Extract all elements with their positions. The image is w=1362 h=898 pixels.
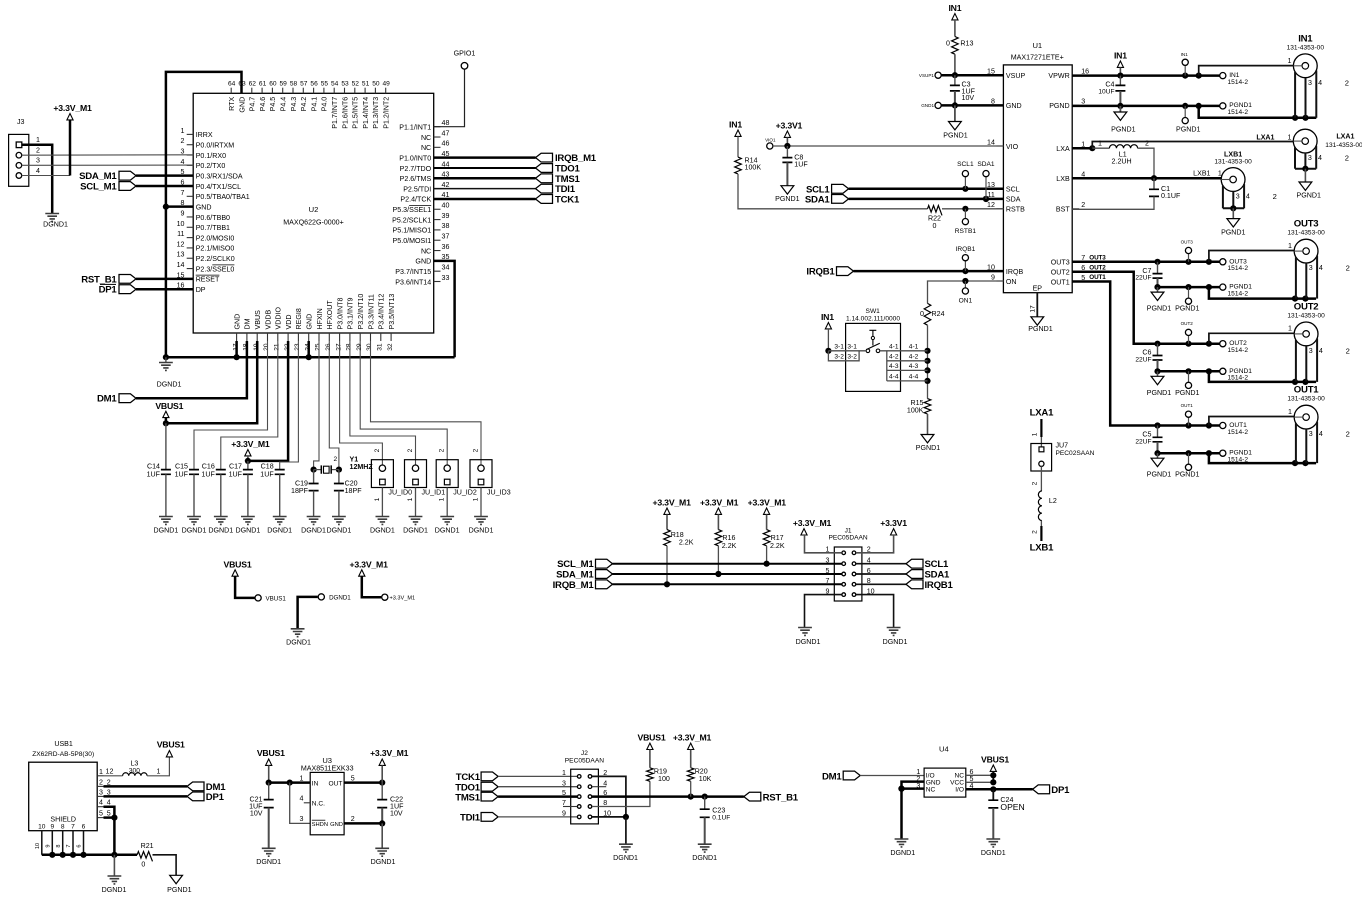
ground PGND1 under LXB1 coax [1232,208,1234,218]
svg-text:DGND1: DGND1 [286,638,311,646]
svg-text:12: 12 [106,767,114,775]
svg-text:1: 1 [562,769,566,777]
ground PGND1 at USB [170,875,183,883]
svg-text:P4.4: P4.4 [280,97,288,112]
capacitor C8 1UF [786,146,788,158]
svg-text:1: 1 [1031,432,1038,436]
wire U4 GND NC tie to ground [902,782,925,789]
svg-text:OUT2: OUT2 [1294,301,1319,312]
resistor R15 100K [924,399,931,414]
svg-text:49: 49 [383,80,391,87]
svg-text:C16: C16 [202,463,215,471]
svg-text:LXA1: LXA1 [1336,133,1354,141]
ground DGND1 under C19 [307,517,321,525]
svg-text:VIO1: VIO1 [765,138,776,143]
test point IRQB1 [964,261,966,271]
svg-text:131-4353-00: 131-4353-00 [1325,142,1362,149]
svg-text:TCK1: TCK1 [555,194,580,205]
svg-text:P1.2/INT2: P1.2/INT2 [383,97,391,129]
svg-text:P4.2: P4.2 [300,97,308,112]
svg-text:P5.3/SSEL1: P5.3/SSEL1 [393,206,432,214]
wire OUT1 bend [1072,282,1157,426]
svg-text:7: 7 [66,844,72,847]
svg-text:4: 4 [300,795,304,803]
svg-text:OUT3: OUT3 [1089,254,1106,261]
wire ON row to R24 [928,281,1004,303]
svg-text:3: 3 [36,157,40,165]
svg-text:IN1: IN1 [821,312,834,322]
svg-text:2: 2 [99,778,103,786]
svg-text:NC: NC [421,144,431,152]
svg-text:PGND1: PGND1 [1175,305,1199,313]
test point OUT1 small [1188,417,1190,425]
ground DGND1 under test point [291,629,305,637]
wire J2 pin8 to R19 [592,781,650,806]
svg-text:VSUP: VSUP [1006,72,1026,80]
svg-text:DGND1: DGND1 [469,527,494,535]
svg-text:10K: 10K [699,775,712,783]
ground PGND1 under LXA1 coax [1304,169,1306,182]
svg-text:LXB: LXB [1056,175,1070,183]
svg-text:1UF: 1UF [260,471,274,479]
svg-text:VSUP1: VSUP1 [919,73,935,78]
svg-text:VIO: VIO [1006,143,1019,151]
capacitor C3 1UF 10V [954,75,956,85]
svg-text:PGND1: PGND1 [916,444,940,452]
wire R24 to switch column [927,325,929,398]
svg-text:2: 2 [334,456,338,463]
svg-text:P3.7/INT15: P3.7/INT15 [395,268,431,276]
svg-text:LXB1: LXB1 [1193,169,1210,177]
svg-text:13: 13 [177,251,185,259]
svg-text:12MHZ: 12MHZ [350,463,374,471]
svg-text:10UF: 10UF [1098,88,1114,95]
svg-text:HFXIN: HFXIN [316,308,324,329]
svg-text:JU_ID1: JU_ID1 [422,489,446,497]
svg-text:4-2: 4-2 [889,354,899,361]
net flag IRQB1 at J1 pin8 [856,583,906,585]
svg-text:131-4353-00: 131-4353-00 [1287,45,1325,52]
ground DGND1 under C17 [241,517,255,525]
svg-text:P3.1/INT9: P3.1/INT9 [347,298,355,330]
capacitor C23 0.1UF [704,797,706,810]
wire PGND row under OUT1 [1158,452,1220,455]
resistor R24 0 [924,303,931,325]
svg-text:9: 9 [991,273,995,281]
svg-text:NC: NC [926,786,936,793]
svg-text:10: 10 [177,220,185,228]
resistor R13 0 [952,37,959,55]
svg-text:JU_ID2: JU_ID2 [453,489,477,497]
svg-text:1: 1 [181,127,185,135]
svg-text:2: 2 [1031,530,1038,534]
svg-text:1: 1 [1288,325,1292,333]
svg-text:DM1: DM1 [822,772,842,783]
svg-text:5: 5 [351,774,355,782]
ground DGND1 under JU_ID3 [474,517,488,525]
svg-text:P4.5: P4.5 [269,97,277,112]
svg-text:P3.3/INT11: P3.3/INT11 [367,294,375,329]
wire J3 pin3 to U2 pin4 [22,164,194,166]
svg-text:4-4: 4-4 [889,374,899,381]
svg-text:28: 28 [346,343,353,351]
svg-text:1UF: 1UF [147,471,161,479]
svg-text:IN: IN [312,780,319,787]
svg-text:IN1: IN1 [729,120,742,130]
svg-text:VBUS1: VBUS1 [257,748,285,758]
svg-text:TMS1: TMS1 [455,792,481,803]
wire GND row U1 pin8 [941,104,1003,107]
svg-text:L3: L3 [130,760,138,768]
wire U2 pin63 GND loop to left rail and GND bus [166,72,242,357]
svg-text:PGND1: PGND1 [1111,126,1135,134]
svg-text:47: 47 [442,129,450,137]
wire U2 pin27 to JU_ID0 [340,341,383,465]
svg-text:P0.6/TBB0: P0.6/TBB0 [196,214,230,222]
wire U2 pin17 GND to bus [235,341,238,357]
wire U4 pin6 pin5 [966,774,994,776]
svg-text:1: 1 [1288,242,1292,250]
svg-text:BST: BST [1056,206,1070,214]
wire RST_B1 row from J2 pin6 [592,795,744,798]
wire VPWR row [1072,74,1220,77]
svg-text:3: 3 [1309,347,1313,355]
svg-text:HFXOUT: HFXOUT [326,300,334,330]
svg-text:P4.1: P4.1 [310,97,318,112]
wire PGND row under OUT2 [1158,370,1220,373]
USB shield ground bus [42,854,137,857]
svg-text:OUT2: OUT2 [1181,321,1194,326]
svg-text:2: 2 [1346,430,1350,439]
svg-text:P4.6: P4.6 [259,97,267,112]
test point ON1 [964,281,966,288]
svg-text:0: 0 [946,40,950,48]
svg-text:2: 2 [351,815,355,823]
inductor L3 300 [104,775,123,777]
resistor R22 0 [928,206,943,216]
svg-text:10V: 10V [250,810,263,818]
svg-text:1: 1 [439,497,446,501]
test point OUT1 1514-2 [1220,422,1226,428]
svg-text:GND: GND [415,258,431,266]
svg-text:GND: GND [306,314,314,330]
svg-text:SDA1: SDA1 [805,194,831,205]
resistor R21 0 [137,852,152,862]
wire PGND row U1 pin3 [1072,105,1220,108]
svg-text:P0.7/TBB1: P0.7/TBB1 [196,224,230,232]
svg-text:SW1: SW1 [866,308,881,315]
svg-text:C6: C6 [1142,349,1151,357]
svg-text:DGND1: DGND1 [208,527,233,535]
svg-text:8: 8 [61,823,65,830]
svg-text:27: 27 [335,343,342,351]
svg-text:P1.4/INT4: P1.4/INT4 [362,97,370,129]
wire U3 GND row [344,822,382,825]
svg-text:1: 1 [1098,139,1102,147]
svg-text:OUT1: OUT1 [1089,274,1106,281]
svg-text:131-4353-00: 131-4353-00 [1287,396,1325,403]
svg-text:P1.1/INT1: P1.1/INT1 [399,124,431,132]
test point PGND1 below [1184,106,1186,118]
net flag IRQB_M1 from U2 pin45 [434,156,536,159]
svg-text:P1.5/INT5: P1.5/INT5 [352,97,360,129]
svg-text:3-1: 3-1 [847,344,857,351]
svg-text:DP1: DP1 [99,285,118,296]
U2 bottom pin stubs 17-32 [236,333,238,341]
capacitor C22 1UF 10V [381,783,383,800]
wire U3 OUT to +3.3V_M1 [344,781,382,784]
svg-text:1: 1 [300,774,304,782]
svg-text:GND: GND [233,314,241,330]
svg-text:1: 1 [374,497,381,501]
svg-text:53: 53 [341,80,349,87]
inductor L1 2.2UH on LXA [1072,147,1092,150]
wire R22 to U1 RSTB pin12 [942,208,1003,210]
svg-text:2.2K: 2.2K [722,542,737,550]
svg-text:37: 37 [442,233,450,241]
svg-text:54: 54 [331,80,339,87]
svg-text:P2.1/MISO0: P2.1/MISO0 [196,245,235,253]
U2 top pin stubs 64-49 [385,88,387,94]
resistor R18 2.2K [664,530,671,546]
test point DGND1 [318,594,324,600]
svg-text:NC: NC [421,247,431,255]
svg-text:12: 12 [987,201,995,209]
svg-text:4: 4 [1318,154,1322,162]
jumper JU7 PEC02SAAN [1031,444,1052,472]
svg-text:100K: 100K [907,406,924,414]
net flag RST_B1 at J2 [744,792,761,801]
switch SW1 contacts and actuator [866,349,870,353]
svg-text:+3.3V_M1: +3.3V_M1 [231,439,270,449]
svg-text:4-1: 4-1 [909,344,919,351]
junction U2 pin8 GND [163,204,169,210]
svg-text:26: 26 [325,343,332,351]
svg-text:IRQB1: IRQB1 [806,267,835,278]
svg-text:0: 0 [141,861,145,869]
svg-text:JU_ID3: JU_ID3 [487,489,511,497]
svg-text:1: 1 [1288,134,1292,142]
svg-text:LXA1: LXA1 [1256,134,1274,142]
svg-text:P0.1/RX0: P0.1/RX0 [196,152,226,160]
svg-text:P0.0/IRTXM: P0.0/IRTXM [196,142,235,150]
svg-text:P4.3: P4.3 [290,97,298,112]
wire J3 pin1 to DGND1 [22,145,52,213]
svg-text:DGND1: DGND1 [301,527,326,535]
wire GPIO1 to U2 pin48 [434,69,465,127]
svg-text:1: 1 [1288,57,1292,65]
svg-text:1UF: 1UF [229,471,243,479]
test point PGND1 1514-2 [1220,103,1226,109]
svg-text:MAXQ622G-0000+: MAXQ622G-0000+ [283,219,344,227]
svg-text:1514-2: 1514-2 [1228,347,1249,354]
test point OUT3 1514-2 [1220,259,1226,265]
svg-text:OPEN: OPEN [1000,802,1024,812]
svg-text:P1.3/INT3: P1.3/INT3 [372,97,380,129]
ground PGND1 under EP [1031,317,1044,325]
svg-text:LXB1: LXB1 [1030,543,1054,554]
svg-text:P1.7/INT7: P1.7/INT7 [331,97,339,129]
net flag SDA1 at J1 pin6 [856,573,906,575]
svg-text:RSTB: RSTB [1006,206,1025,214]
wire R21 to PGND1 [153,855,177,876]
wire U2 pin30 to JU_ID3 [371,341,482,465]
ground DGND1 under C16 [214,517,228,525]
test point PGND1 1514-2 [1220,368,1226,374]
capacitor C17 1UF [247,461,249,470]
U2 right pin stubs 48-33 [434,281,441,283]
test point SDA1 [985,177,987,199]
svg-text:1.14.002.111/0000: 1.14.002.111/0000 [846,316,900,323]
svg-text:10V: 10V [962,94,975,102]
svg-text:C18: C18 [261,463,274,471]
wire R16 to SDA_M1 row [717,546,719,574]
svg-text:DGND1: DGND1 [256,858,281,866]
svg-text:4-4: 4-4 [909,374,919,381]
svg-text:EP: EP [1033,284,1043,292]
wire U2 pin28 to JU_ID1 [350,341,416,465]
svg-text:7: 7 [562,799,566,807]
svg-text:P2.7/TDO: P2.7/TDO [400,165,432,173]
svg-text:PEC05DAAN: PEC05DAAN [828,535,867,542]
wire SHDN tie to IN [290,783,311,824]
svg-text:ZX62RD-AB-5P8(30): ZX62RD-AB-5P8(30) [32,751,94,758]
svg-text:NC: NC [421,134,431,142]
svg-text:VPWR: VPWR [1048,72,1069,80]
net flag TDO1 from U2 pin44 [434,167,536,169]
svg-text:+3.3V_M1: +3.3V_M1 [390,596,416,602]
svg-text:+3.3V_M1: +3.3V_M1 [53,103,92,113]
svg-text:IN1: IN1 [1298,34,1313,45]
U3 NC stub pin4 [304,802,310,804]
ground PGND1 under C4 [1119,106,1121,112]
svg-text:VBUS1: VBUS1 [155,401,183,411]
ground DGND1 under C22 [375,848,389,856]
svg-text:0.1UF: 0.1UF [712,814,730,821]
svg-text:VDDB: VDDB [264,310,272,330]
svg-text:ON: ON [1006,278,1017,286]
svg-text:3: 3 [826,557,830,565]
wire U4 pin4 to DP1 [966,788,1033,791]
wire J1 pin9 to DGND1 [805,595,842,627]
svg-text:30: 30 [366,343,373,351]
inductor L2 [1040,466,1042,491]
svg-text:1514-2: 1514-2 [1228,265,1249,272]
svg-text:P2.6/TMS: P2.6/TMS [400,175,432,183]
svg-text:7: 7 [826,577,830,585]
test point OUT3 small [1188,254,1190,262]
svg-text:1: 1 [36,136,40,144]
test point VIO1 and VIO wire [767,143,773,149]
svg-text:DGND1: DGND1 [102,886,127,894]
svg-text:7: 7 [181,189,185,197]
svg-text:2: 2 [407,448,414,452]
U1 EP pin17 to PGND1 [1036,293,1038,317]
svg-text:U2: U2 [309,205,319,214]
ground PGND1 under C3 [954,105,956,121]
svg-text:+3.3V1: +3.3V1 [776,121,803,131]
svg-text:3: 3 [99,788,103,796]
svg-text:PGND1: PGND1 [1296,192,1320,200]
svg-text:10: 10 [35,843,41,849]
svg-text:OUT1: OUT1 [1051,278,1070,286]
svg-text:1: 1 [1288,408,1292,416]
svg-text:33: 33 [442,274,450,282]
svg-text:+3.3V_M1: +3.3V_M1 [370,748,409,758]
svg-text:2: 2 [1345,78,1349,87]
svg-text:+3.3V_M1: +3.3V_M1 [652,498,691,508]
svg-text:17: 17 [1030,305,1037,313]
svg-text:VBUS1: VBUS1 [981,755,1009,765]
test point PGND1 1514-2 [1220,284,1226,290]
svg-text:DGND1: DGND1 [883,638,908,646]
jumper JU_ID2 [436,460,458,488]
svg-text:P5.2/SCLK1: P5.2/SCLK1 [392,216,431,224]
ground DGND1 under C23 [698,844,712,852]
svg-text:42: 42 [442,181,450,189]
net flag TMS1 from U2 pin43 [434,177,536,180]
svg-text:2.2UH: 2.2UH [1112,157,1132,165]
svg-text:OUT2: OUT2 [1089,264,1106,271]
svg-text:31: 31 [377,343,384,351]
svg-text:+3.3V_M1: +3.3V_M1 [349,559,388,569]
svg-text:PGND1: PGND1 [167,886,191,894]
svg-text:2: 2 [1346,346,1350,355]
svg-text:OUT2: OUT2 [1051,269,1070,277]
net flag DP1 at U4 [1033,785,1050,794]
wire R18 to IRQB_M1 row [666,546,668,585]
svg-text:PGND1: PGND1 [1221,229,1245,237]
svg-text:10V: 10V [390,810,403,818]
svg-text:P1.6/INT6: P1.6/INT6 [341,97,349,129]
wire OUT3 row [1072,261,1157,264]
wire J3 pin2 to U2 pin3 [22,154,194,156]
svg-text:59: 59 [280,80,288,87]
capacitor C7 22UF [1157,262,1159,274]
ground DGND1 under C20 [332,517,346,525]
svg-text:2.2K: 2.2K [679,539,694,547]
svg-text:J2: J2 [581,750,588,757]
svg-text:3: 3 [300,815,304,823]
capacitor C16 1UF on VDDIO pin21 [221,341,278,470]
svg-text:131-4353-00: 131-4353-00 [1287,312,1325,319]
ground DGND1 under JU_ID0 [376,517,390,525]
svg-text:6: 6 [77,844,83,847]
J2 pin7 stub [563,806,577,808]
svg-text:8: 8 [56,844,62,847]
svg-text:25: 25 [315,343,322,351]
svg-text:10: 10 [38,823,46,830]
wire OUT2 distribution row [1158,342,1220,345]
ground DGND1 under C21 [262,848,276,856]
svg-text:VBUS1: VBUS1 [638,733,666,743]
svg-text:DGND1: DGND1 [371,858,396,866]
resistor R19 100 [647,768,654,782]
svg-text:51: 51 [362,80,370,87]
svg-text:RESET: RESET [196,276,220,284]
ground DGND1 under C18 [273,517,287,525]
svg-text:C5: C5 [1142,431,1151,439]
svg-text:PGND1: PGND1 [1147,305,1171,313]
svg-text:DGND1: DGND1 [796,638,821,646]
svg-text:R21: R21 [141,842,154,850]
svg-text:3: 3 [1308,79,1312,87]
svg-text:IRQB: IRQB [1006,268,1024,276]
svg-text:P3.0/INT8: P3.0/INT8 [336,298,344,330]
svg-text:SDA1: SDA1 [977,161,995,168]
ground DGND1 under U4 [895,839,909,847]
svg-text:IRQB_M1: IRQB_M1 [553,580,595,591]
